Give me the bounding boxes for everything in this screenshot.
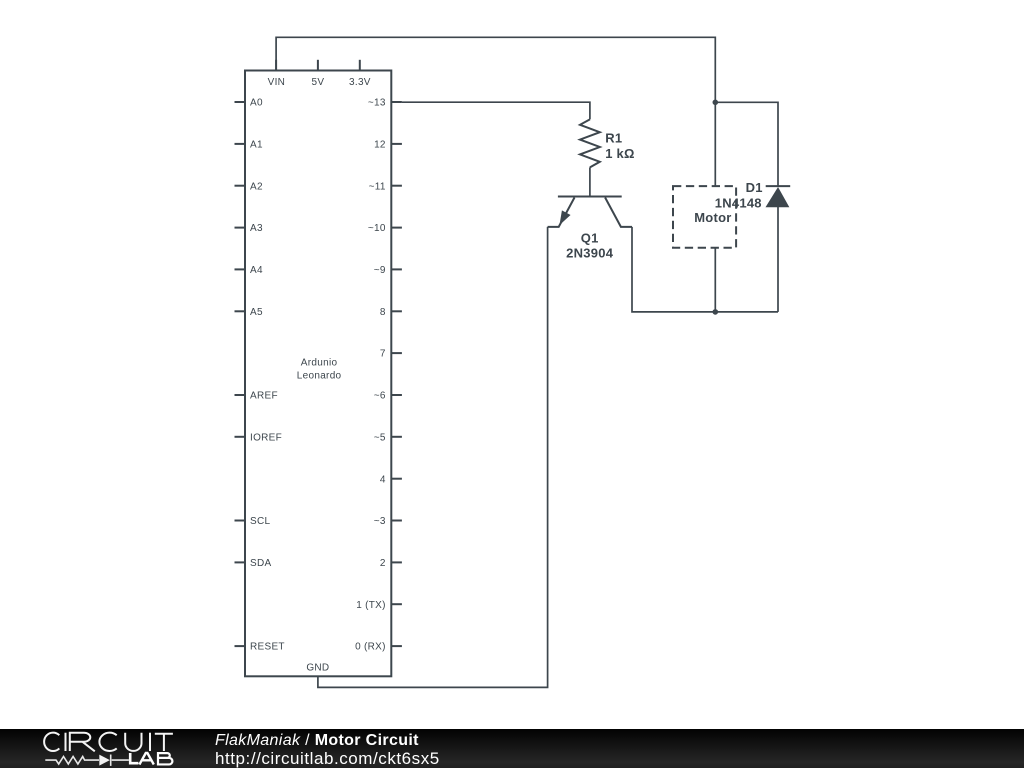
transistor Q1 [548,197,632,227]
svg-text:R1: R1 [605,131,622,146]
pin ~5 [374,432,402,443]
motor M1 dashed body [673,186,736,248]
svg-text:5V: 5V [311,77,324,88]
svg-text:Ardunio: Ardunio [301,358,338,369]
IC U1 Arduino Leonardo body [245,71,391,677]
svg-text:D1: D1 [746,180,763,195]
pin 7 [380,349,402,360]
svg-text:A3: A3 [250,223,263,234]
svg-text:1 (TX): 1 (TX) [356,600,386,611]
svg-text:A5: A5 [250,307,263,318]
svg-text:Leonardo: Leonardo [297,370,342,381]
resistor R1 [580,119,600,167]
svg-text:~5: ~5 [374,432,386,443]
wire VIN to node A (top rail, down to motor top) [276,37,715,186]
svg-text:AREF: AREF [250,391,278,402]
svg-text:RESET: RESET [250,642,285,653]
pin GND [306,663,329,674]
svg-text:2N3904: 2N3904 [566,245,614,260]
pin A5 [235,307,263,318]
pin 12 [374,140,402,151]
svg-text:~9: ~9 [374,265,386,276]
pin A2 [235,181,263,192]
IC U1 name label [297,358,342,382]
svg-text:3.3V: 3.3V [349,77,371,88]
pin 0 (RX) [355,642,402,653]
label Q1 value [566,230,614,260]
svg-text:A0: A0 [250,98,263,109]
pin 1 (TX) [356,600,402,611]
svg-text:SDA: SDA [250,558,271,569]
svg-text:SCL: SCL [250,516,270,527]
svg-text:~11: ~11 [369,181,386,192]
pin ~11 [369,181,402,192]
pin SDA [235,558,272,569]
svg-text:~6: ~6 [374,391,386,402]
svg-text:7: 7 [380,349,386,360]
pin VIN [268,60,286,88]
footer title text [215,732,419,749]
pin A0 [235,98,263,109]
pin A1 [235,140,263,151]
svg-text:1 kΩ: 1 kΩ [605,146,635,161]
pin ~13 [368,98,402,109]
svg-text:Motor: Motor [694,210,731,225]
node A junction dot [713,100,719,106]
footer url text [215,749,440,768]
CircuitLab logo LAB [130,753,172,765]
svg-text:8: 8 [380,307,386,318]
svg-text:2: 2 [380,558,386,569]
pin SCL [235,516,271,527]
pin ~3 [374,516,402,527]
pin ~10 [368,223,402,234]
pin RESET [235,642,285,653]
label Motor [694,210,731,225]
node B junction dot [713,309,719,315]
svg-text:12: 12 [374,140,386,151]
svg-text:http://circuitlab.com/ckt6sx5: http://circuitlab.com/ckt6sx5 [215,749,440,768]
label R1 value [605,131,635,162]
pin IOREF [235,432,283,443]
pin ~9 [374,265,402,276]
pin 5V [311,60,324,88]
label D1 value [715,180,763,211]
pin A3 [235,223,263,234]
pin 8 [380,307,402,318]
svg-text:A1: A1 [250,140,263,151]
diode D1 [766,186,791,312]
wire motor bottom to node B [714,248,716,312]
wire R1 to Q1 base [589,167,591,195]
svg-text:~3: ~3 [374,516,386,527]
wire pin ~13 to resistor R1 [402,102,590,119]
wire Q1 emitter to GND pin [318,227,548,688]
wire Q1 collector to node B [632,227,778,312]
svg-text:A4: A4 [250,265,263,276]
svg-text:IOREF: IOREF [250,432,282,443]
svg-text:A2: A2 [250,181,263,192]
svg-text:FlakManiak / Motor Circuit: FlakManiak / Motor Circuit [215,732,419,749]
svg-text:1N4148: 1N4148 [715,196,762,211]
svg-text:~10: ~10 [368,223,386,234]
svg-text:Q1: Q1 [581,230,599,245]
svg-text:4: 4 [380,474,386,485]
svg-text:GND: GND [306,663,329,674]
pin 3.3V [349,60,371,88]
CircuitLab logo CIRCUIT [44,733,173,752]
svg-text:0 (RX): 0 (RX) [355,642,386,653]
svg-text:~13: ~13 [368,98,386,109]
pin 4 [380,474,402,485]
pin ~6 [374,391,402,402]
svg-text:VIN: VIN [268,77,286,88]
pin 2 [380,558,402,569]
pin AREF [235,391,278,402]
wire node A to diode D1 cathode [715,102,778,187]
CircuitLab logo schematic line [45,755,129,766]
pin A4 [235,265,263,276]
